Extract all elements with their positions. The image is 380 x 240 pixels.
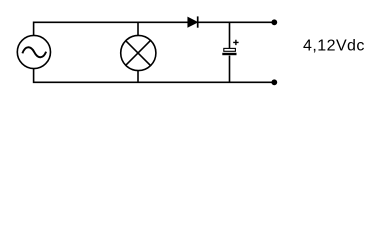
wire capacitor top lead [229, 22, 231, 48]
capacitor C1 positive plate (hollow box) [224, 48, 236, 51]
wire lamp bottom lead [137, 70, 139, 82]
capacitor C1 negative plate [222, 53, 236, 55]
lamp L1 cross stroke 1 [126, 41, 151, 66]
ac source V1 circle [17, 35, 50, 68]
wire top-left rail from source top to top wire [34, 22, 188, 35]
diode D1 cathode bar [197, 16, 199, 27]
wire lamp top lead [137, 22, 139, 35]
node - output terminal dot [271, 79, 277, 85]
wire bottom rail from source bottom along bottom to negative terminal [34, 69, 273, 83]
svg-text:4,12Vdc: 4,12Vdc [303, 38, 365, 55]
node + output terminal dot [271, 19, 277, 25]
capacitor C1 plus sign [233, 40, 238, 45]
wire capacitor bottom lead [229, 56, 231, 83]
wire top from diode cathode to positive terminal [198, 21, 273, 23]
lamp L1 circle [121, 35, 156, 70]
ac source V1 sine wave [22, 47, 46, 57]
lamp L1 cross stroke 2 [126, 41, 151, 66]
diode D1 triangle (anode) [188, 17, 198, 27]
